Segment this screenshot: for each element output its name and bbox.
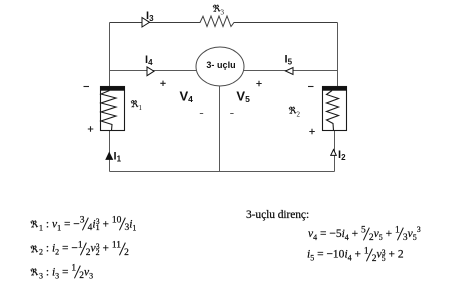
svg-text:I5: I5	[285, 54, 293, 67]
svg-text:V5: V5	[236, 89, 250, 105]
svg-text:1: 1	[139, 104, 143, 112]
svg-text:3: 3	[221, 9, 225, 17]
svg-text:I4: I4	[145, 54, 153, 67]
svg-text:I1: I1	[114, 151, 122, 164]
svg-text:3- uçlu: 3- uçlu	[206, 60, 235, 70]
svg-text:2: 2	[297, 111, 301, 119]
svg-text:V4: V4	[180, 89, 194, 105]
svg-text:I3: I3	[146, 10, 154, 23]
svg-text:I2: I2	[338, 149, 346, 162]
